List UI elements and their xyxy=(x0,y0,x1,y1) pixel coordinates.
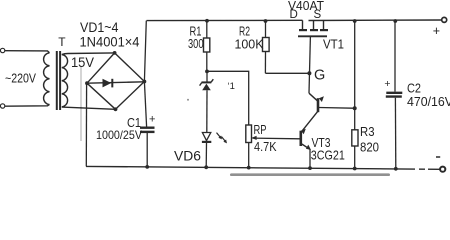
svg-text:D: D xyxy=(290,9,298,21)
wire AC bottom xyxy=(5,104,50,106)
svg-text:VD6: VD6 xyxy=(174,149,201,164)
resistor R3 xyxy=(354,21,356,132)
MOSFET VT1 xyxy=(303,20,324,29)
transistor VT3 xyxy=(299,131,302,146)
wire VT2 to R3 node xyxy=(319,107,353,110)
svg-text:+: + xyxy=(149,113,155,125)
fold line (scan artifact) xyxy=(80,67,82,142)
wire R1 node to RP drop xyxy=(209,71,249,125)
wire AC top xyxy=(5,51,50,53)
svg-text:4.7K: 4.7K xyxy=(254,139,277,154)
transformer secondary winding xyxy=(62,55,68,107)
svg-text:100K: 100K xyxy=(235,37,264,52)
transformer T primary winding xyxy=(44,53,50,105)
wire R2 to gate xyxy=(265,72,309,74)
node G junction xyxy=(307,71,311,75)
bridge diode symbol xyxy=(103,79,112,88)
svg-text:15V: 15V xyxy=(71,55,94,70)
scan smear bottom xyxy=(230,173,390,176)
node output sense xyxy=(353,106,357,110)
capacitor C2 xyxy=(394,21,396,92)
svg-text:ʻ1: ʻ1 xyxy=(228,81,235,92)
svg-text:+: + xyxy=(433,24,440,38)
svg-text:S: S xyxy=(314,9,322,21)
resistor R1 xyxy=(206,20,208,38)
wire secondary top to bridge top vertex xyxy=(62,53,115,55)
svg-text:~220V: ~220V xyxy=(5,72,37,86)
svg-text:820: 820 xyxy=(360,140,379,155)
transformer core xyxy=(56,51,58,110)
svg-text:1N4001×4: 1N4001×4 xyxy=(80,35,140,50)
wire bridge left vertex down to bottom rail xyxy=(85,83,87,166)
svg-text:470/16V: 470/16V xyxy=(407,94,450,109)
rail fade dashes xyxy=(415,168,419,170)
svg-text:+: + xyxy=(384,78,390,90)
stray speck xyxy=(187,99,189,101)
wire gate line xyxy=(309,36,310,93)
wire bridge right vertex up to top rail xyxy=(144,21,146,82)
wire bridge right vertex down to C1 xyxy=(144,82,146,127)
bottom rail xyxy=(86,166,440,169)
terminal AC bottom left xyxy=(0,104,4,108)
zener diode VD5 xyxy=(206,72,208,82)
svg-text:T: T xyxy=(58,35,66,49)
svg-text:VT1: VT1 xyxy=(323,37,344,52)
wire secondary bottom to bridge bottom vertex xyxy=(62,107,116,109)
svg-text:300: 300 xyxy=(188,36,204,51)
svg-text:RP: RP xyxy=(254,122,267,137)
wire RP wiper to VT3 base xyxy=(253,137,300,140)
capacitor C1 xyxy=(140,126,155,128)
node R1 bottom xyxy=(205,70,209,74)
svg-text:G: G xyxy=(314,67,325,83)
top rail xyxy=(147,19,442,22)
svg-text:VD1~4: VD1~4 xyxy=(80,20,119,35)
LED light arrows xyxy=(217,133,228,144)
transistor VT2 xyxy=(309,93,317,101)
potentiometer RP xyxy=(246,125,252,143)
svg-text:R3: R3 xyxy=(360,124,375,139)
svg-text:3CG21: 3CG21 xyxy=(311,148,345,163)
resistor R2 xyxy=(265,20,267,37)
bridge rectifier VD1~4 diamond xyxy=(87,53,144,109)
terminal + (top right) xyxy=(442,17,447,22)
terminal - (bottom right) xyxy=(440,167,445,172)
terminal AC top left xyxy=(0,48,4,52)
node dots of bridge xyxy=(85,81,89,85)
LED VD6 xyxy=(202,133,210,141)
svg-text:1000/25V: 1000/25V xyxy=(96,128,142,142)
